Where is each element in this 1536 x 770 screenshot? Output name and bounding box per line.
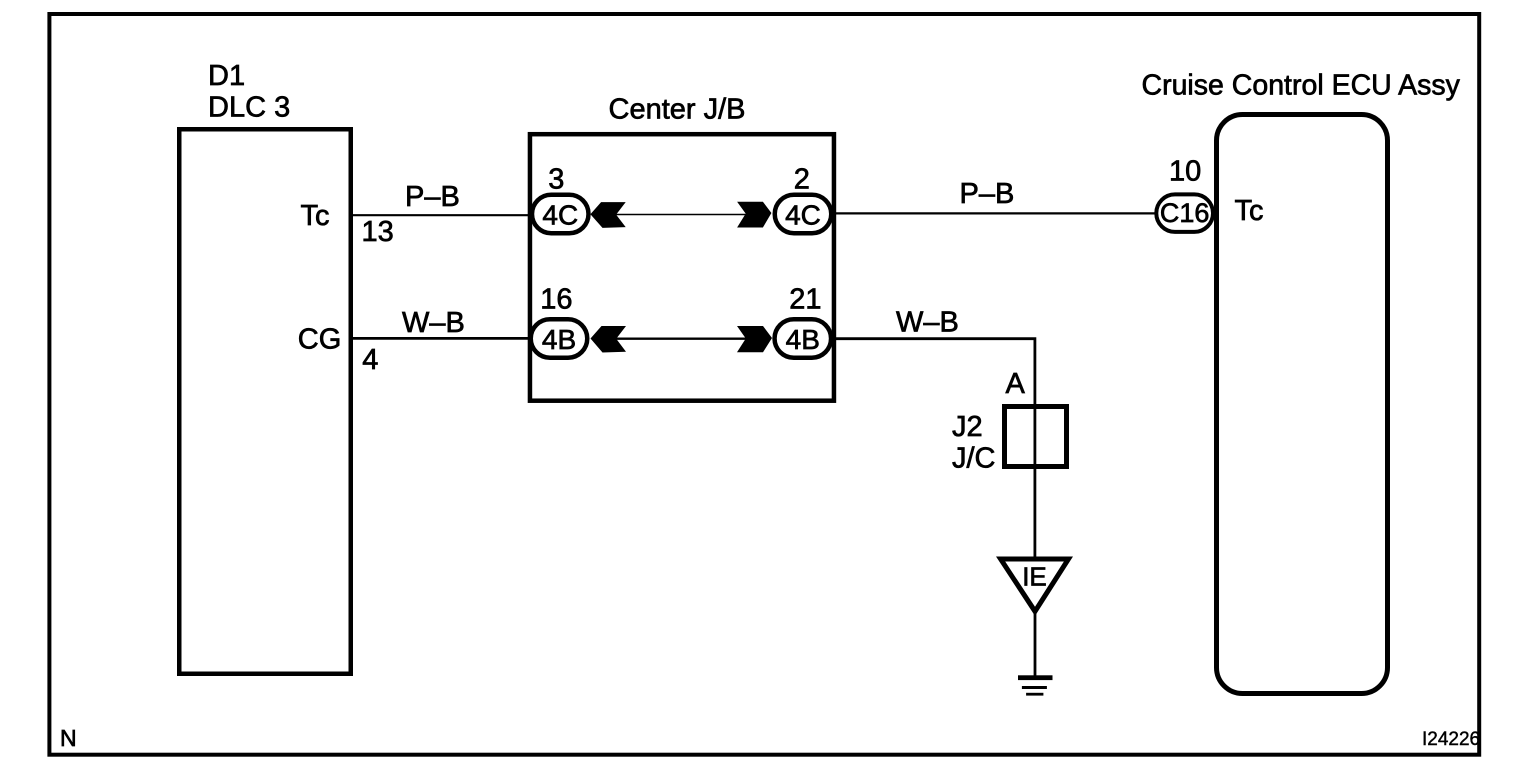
- wire inside Center J/B row 2: [608, 338, 752, 340]
- svg-text:DLC 3: DLC 3: [208, 92, 290, 124]
- connector 4C pin 2: [775, 195, 832, 234]
- svg-text:4B: 4B: [786, 324, 820, 355]
- svg-text:Center J/B: Center J/B: [609, 94, 746, 126]
- ground symbol: [1018, 675, 1053, 680]
- svg-text:J/C: J/C: [952, 443, 996, 475]
- svg-text:W–B: W–B: [896, 307, 959, 339]
- wire P-B from Center J/B 4C pin 2 to C16: [820, 212, 1184, 214]
- connector D1 DLC 3: [179, 129, 351, 674]
- connector C16: [1156, 194, 1213, 232]
- svg-text:CG: CG: [298, 324, 342, 356]
- arrow right row 2: [737, 326, 772, 352]
- ECU Cruise Control ECU Assy: [1217, 115, 1388, 694]
- svg-text:A: A: [1006, 368, 1026, 400]
- svg-text:D1: D1: [208, 60, 245, 92]
- svg-text:21: 21: [789, 284, 821, 316]
- junction block Center J/B: [530, 134, 834, 401]
- arrow left row 2: [591, 326, 627, 353]
- svg-text:N: N: [60, 725, 77, 751]
- svg-text:W–B: W–B: [402, 307, 465, 339]
- connector 4C pin 3: [532, 195, 589, 234]
- connector 4B pin 21: [775, 319, 832, 358]
- svg-text:13: 13: [362, 216, 394, 248]
- wire inside Center J/B row 1: [608, 214, 752, 216]
- svg-text:I24226: I24226: [1422, 729, 1480, 750]
- svg-text:4B: 4B: [542, 324, 576, 355]
- svg-text:4C: 4C: [785, 199, 821, 230]
- wire from IE triangle to ground: [1034, 610, 1037, 677]
- svg-text:IE: IE: [1022, 562, 1047, 592]
- svg-text:4C: 4C: [542, 199, 578, 230]
- connector 4B pin 16: [531, 319, 588, 358]
- wire W-B from Center J/B 4B pin 21 to junction J2 and ground: [820, 339, 1035, 560]
- arrow left row 1: [590, 202, 625, 228]
- svg-text:P–B: P–B: [960, 178, 1015, 210]
- svg-text:Cruise Control ECU Assy: Cruise Control ECU Assy: [1142, 70, 1461, 102]
- svg-text:C16: C16: [1160, 198, 1210, 228]
- arrow right row 1: [737, 202, 771, 228]
- svg-text:P–B: P–B: [405, 181, 460, 213]
- svg-text:10: 10: [1169, 156, 1201, 188]
- svg-text:16: 16: [540, 284, 572, 316]
- wire W-B from DLC3 pin 4 to Center J/B 4B: [353, 337, 560, 340]
- svg-text:Tc: Tc: [301, 200, 330, 232]
- wire P-B from DLC3 pin 13 to Center J/B 4C: [353, 214, 561, 216]
- svg-text:Tc: Tc: [1235, 195, 1264, 227]
- svg-text:3: 3: [548, 164, 564, 196]
- svg-text:J2: J2: [952, 411, 983, 443]
- svg-text:4: 4: [362, 344, 378, 376]
- ground triangle IE: [996, 557, 1073, 617]
- junction connector J2 J/C node A: [1005, 407, 1067, 467]
- svg-text:2: 2: [794, 164, 810, 196]
